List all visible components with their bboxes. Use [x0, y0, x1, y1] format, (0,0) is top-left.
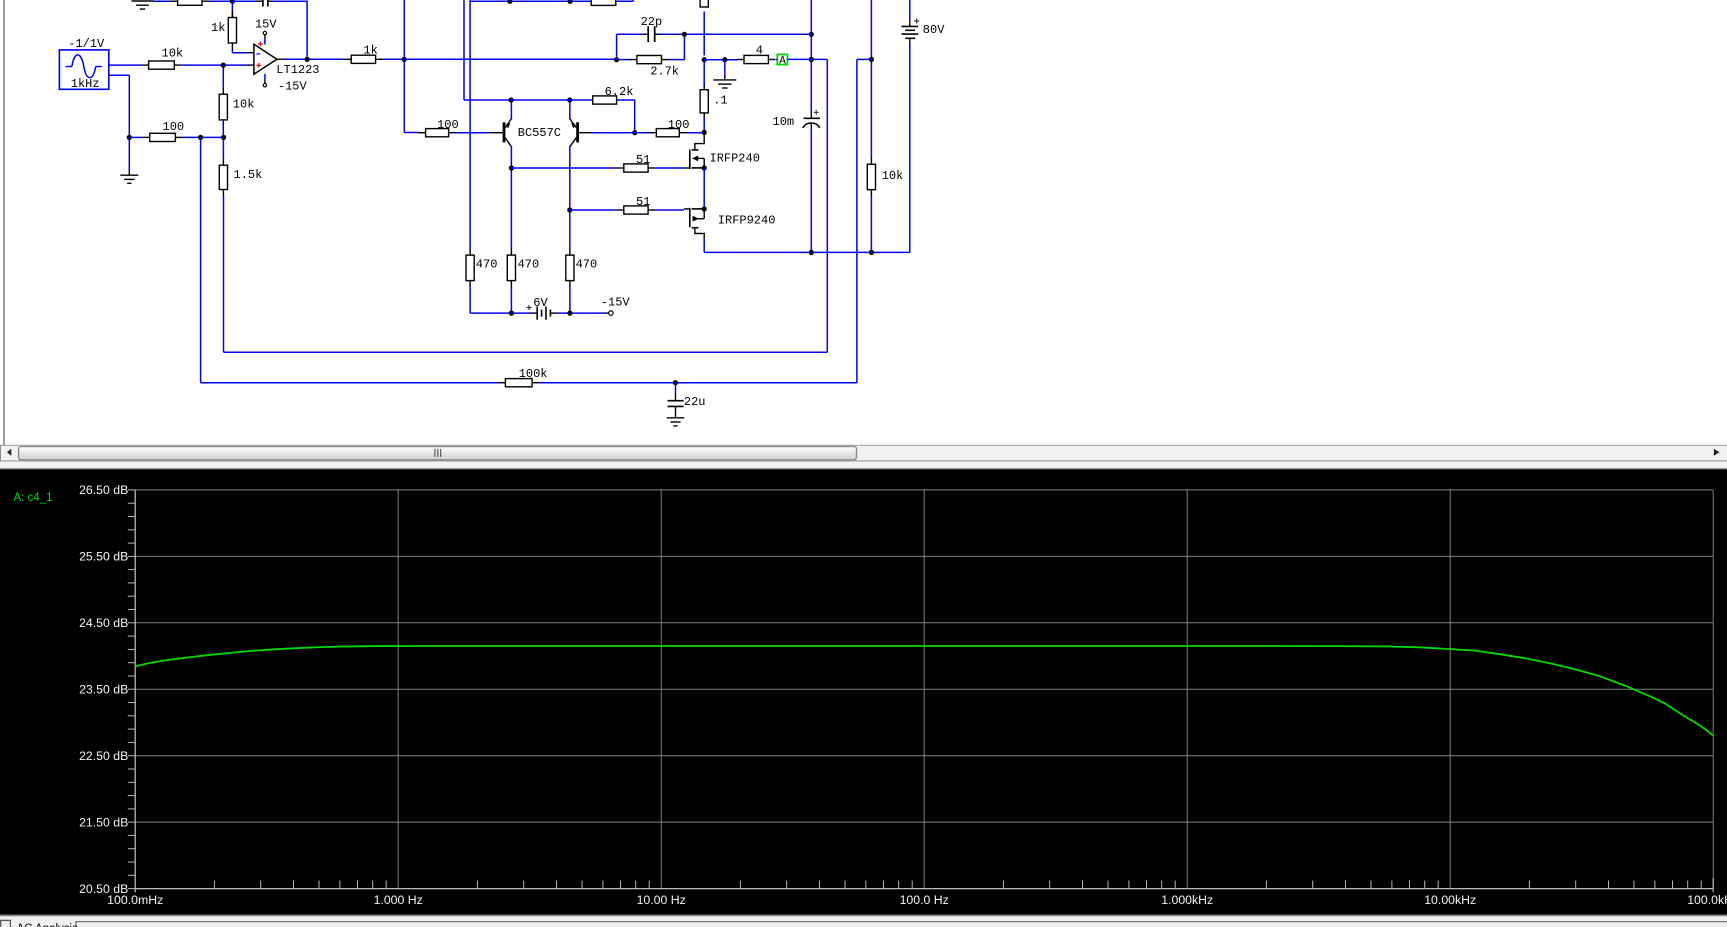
- junction .1 top node: [702, 57, 707, 62]
- resistor R 100 (base right): [649, 118, 690, 137]
- transistor Q1 BC557C (left): [489, 119, 511, 147]
- junction R470b: [509, 311, 514, 316]
- plot axes: [134, 490, 136, 889]
- svg-text:BC557C: BC557C: [518, 126, 561, 140]
- wire source- out: [109, 74, 130, 76]
- ground (node row): [713, 75, 736, 88]
- resistor R 1.5k: [219, 158, 262, 196]
- resistor R 10k (input): [141, 47, 183, 70]
- bottom tab bar: [0, 915, 1727, 927]
- junction M1 source: [702, 165, 707, 170]
- svg-text:22u: 22u: [684, 395, 706, 409]
- wire 22p left down: [616, 34, 618, 59]
- svg-text:470: 470: [518, 258, 540, 272]
- source V1 -1/1V 1kHz sine: [59, 50, 108, 89]
- svg-text:6V: 6V: [533, 296, 548, 310]
- svg-text:-15V: -15V: [601, 295, 631, 309]
- capacitor 22p: [643, 26, 660, 42]
- wire outer loop right: [856, 59, 858, 382]
- junction rail/10m: [809, 250, 814, 255]
- wire 10m to rail: [810, 129, 812, 253]
- svg-text:10k: 10k: [233, 97, 255, 111]
- wire down to op-amp output: [306, 1, 308, 60]
- junction R470c: [567, 311, 572, 316]
- resistor R 51 (lower): [616, 195, 655, 214]
- svg-text:100: 100: [668, 118, 690, 132]
- wire junction to cap: [232, 0, 255, 2]
- junction outer loop tap: [198, 135, 203, 140]
- wire to R51b: [570, 209, 617, 211]
- wire source- down to gnd node: [128, 75, 130, 137]
- svg-text:.1: .1: [713, 94, 727, 108]
- junction fb node left: [614, 57, 619, 62]
- junction Q2 collector / 51: [567, 207, 572, 212]
- junction output bus: [809, 57, 814, 62]
- wire node to R1.5k: [222, 137, 224, 158]
- resistor R 1k (op-amp fb): [211, 11, 237, 50]
- svg-text:AC Analysis: AC Analysis: [17, 923, 79, 927]
- wire source+ to R10k: [109, 64, 141, 66]
- plot pane background: [0, 469, 1727, 915]
- wire inner loop left: [223, 196, 225, 352]
- wire cap to corner: [273, 0, 308, 2]
- resistor R 1k (series out): [344, 43, 383, 63]
- wire R100 to drain node: [687, 132, 705, 134]
- junction 10k branch: [869, 57, 874, 62]
- wire M2 drain down: [703, 239, 705, 253]
- wire plus node to R10k: [222, 65, 224, 88]
- resistor R 470 c: [566, 249, 597, 288]
- schematic pane left window border: [3, 0, 5, 445]
- svg-text:1k: 1k: [211, 21, 225, 35]
- wire outer loop left: [200, 137, 202, 382]
- resistor R (top right, cut): [700, 0, 708, 7]
- resistor R .1: [700, 85, 728, 117]
- svg-text:470: 470: [476, 258, 498, 272]
- resistor R 470 b: [507, 249, 539, 288]
- wire Q2 emitter up: [569, 100, 571, 120]
- svg-text:470: 470: [576, 258, 598, 272]
- wire bus to 10m: [810, 34, 812, 111]
- wire inner loop right: [826, 59, 828, 352]
- junction 22p right: [682, 32, 687, 37]
- MOSFET M1 IRFP240: [684, 134, 704, 169]
- resistor R 2.7k: [629, 56, 679, 79]
- op-amp -15V supply pin: [263, 74, 266, 87]
- MOSFET M2 IRFP9240: [684, 208, 704, 239]
- svg-text:A: A: [779, 56, 786, 68]
- wire 22p right down: [683, 34, 685, 59]
- svg-text:1k: 1k: [363, 43, 377, 57]
- wire R.1 to drain node: [703, 117, 705, 133]
- svg-text:100: 100: [163, 120, 185, 134]
- wire stub up C: [632, 0, 634, 1]
- probe A marker: [777, 54, 787, 67]
- ground (input): [120, 171, 138, 184]
- svg-text:23.50 dB: 23.50 dB: [79, 683, 128, 697]
- wire to emitter row: [464, 99, 511, 101]
- svg-text:1kHz: 1kHz: [71, 77, 100, 91]
- wire to ground: [128, 137, 130, 170]
- wire A to corner: [787, 58, 827, 60]
- junction rail/10k: [869, 250, 874, 255]
- wire Q1 collector down: [510, 146, 512, 249]
- wire battery row left: [470, 312, 530, 314]
- resistor R 100 (base left): [418, 118, 459, 137]
- svg-text:80V: 80V: [923, 23, 945, 37]
- x-axis minor ticks: [214, 881, 1701, 889]
- wire R470a down: [469, 287, 471, 313]
- junction 22u tap: [673, 380, 678, 385]
- svg-text:1.000kHz: 1.000kHz: [1161, 893, 1213, 907]
- wire node to R100: [635, 132, 649, 134]
- svg-text:15V: 15V: [255, 18, 277, 32]
- junction Q2 emitter: [567, 97, 572, 102]
- terminal -15V: [605, 311, 614, 315]
- wire R10k to node: [222, 120, 224, 137]
- svg-text:21.50 dB: 21.50 dB: [79, 815, 128, 829]
- ground (22u): [667, 415, 685, 426]
- junction ground stub: [722, 57, 727, 62]
- svg-text:10k: 10k: [882, 169, 904, 183]
- resistor R 100 (gnd ref): [142, 120, 184, 142]
- wire Q2 base to node: [592, 132, 635, 134]
- battery 6V: [527, 305, 557, 320]
- svg-text:51: 51: [636, 195, 650, 209]
- wire outer loop to R100k: [201, 382, 498, 384]
- wire jog left: [857, 58, 872, 60]
- wire top R down to node A region: [703, 12, 705, 56]
- wire 10k to rail: [870, 196, 872, 253]
- resistor R 100k: [498, 367, 548, 387]
- svg-text:IRFP240: IRFP240: [710, 152, 760, 166]
- junction M1 drain node: [702, 130, 707, 135]
- svg-text:25.50 dB: 25.50 dB: [79, 550, 128, 564]
- svg-text:24.50 dB: 24.50 dB: [79, 616, 128, 630]
- junction node B: [402, 57, 407, 62]
- wire op-amp out to R1k: [283, 58, 344, 60]
- junction Q1 emitter: [509, 97, 514, 102]
- wire stub up A: [509, 0, 511, 1]
- wire top row R to junction: [210, 0, 233, 2]
- plot vertical gridlines (decades): [135, 490, 1713, 889]
- junction top stub B: [568, 0, 573, 4]
- wire R1k to minus row: [231, 49, 233, 53]
- wire M1 source to M2 source: [703, 168, 705, 209]
- wire Q2 collector down: [569, 146, 571, 249]
- plot horizontal gridlines: [135, 490, 1713, 889]
- wire R2.7k right lead: [669, 59, 685, 61]
- wire battery row right: [557, 312, 605, 314]
- wire to op-amp minus input: [232, 52, 248, 54]
- wire 10k branch from top: [870, 0, 872, 158]
- svg-text:LT1223: LT1223: [276, 63, 319, 77]
- wire R100 to Q1 base: [456, 132, 489, 134]
- transistor Q2 BC557C (right): [570, 119, 592, 147]
- wire top row to R: [154, 0, 171, 2]
- wire stub to ground: [724, 60, 726, 76]
- svg-text:100.0mHz: 100.0mHz: [107, 893, 163, 907]
- svg-text:-15V: -15V: [278, 80, 308, 94]
- wire 6.2k to corner: [617, 99, 635, 101]
- wire long vertical to R470a: [469, 0, 471, 249]
- svg-text:A: c4_1: A: c4_1: [14, 492, 53, 504]
- capacitor 22u + ground: [668, 383, 684, 416]
- svg-text:22.50 dB: 22.50 dB: [79, 749, 128, 763]
- svg-text:26.50 dB: 26.50 dB: [79, 483, 128, 497]
- axis end ticks: [134, 889, 136, 893]
- svg-text:100: 100: [437, 118, 459, 132]
- wire gnd node to R100: [129, 136, 142, 138]
- junction bus top: [809, 32, 814, 37]
- svg-text:100.0kHz: 100.0kHz: [1687, 893, 1727, 907]
- svg-text:4: 4: [756, 43, 763, 57]
- resistor R 4: [737, 43, 775, 63]
- wire R4 to A: [776, 59, 778, 61]
- svg-text:2.7k: 2.7k: [650, 65, 679, 79]
- wire 22p row to output bus: [660, 33, 811, 35]
- wire down to base node: [634, 100, 636, 133]
- svg-text:1.5k: 1.5k: [234, 168, 263, 182]
- wire bottom rail: [704, 251, 910, 253]
- svg-text:51: 51: [636, 153, 650, 167]
- wire tail bias vertical: [463, 0, 465, 100]
- trace A (green curve): [135, 646, 1713, 736]
- resistor R (top, cut): [170, 0, 209, 5]
- wire to 22p: [617, 33, 643, 35]
- wire bus from top: [810, 0, 812, 34]
- wire Q1 emitter up: [510, 100, 512, 120]
- wire inner loop bottom: [224, 351, 828, 353]
- svg-text:10.00 Hz: 10.00 Hz: [637, 893, 686, 907]
- wire node to R.1: [703, 60, 705, 88]
- svg-text:6.2k: 6.2k: [605, 85, 634, 99]
- junction top/1k: [230, 0, 235, 4]
- svg-text:IRFP9240: IRFP9240: [718, 213, 776, 227]
- wire R100k to right corner: [540, 382, 857, 384]
- op-amp +15V supply pin: [263, 31, 266, 44]
- wire stub up B: [569, 0, 571, 1]
- resistor R (top mid, cut): [591, 0, 616, 5]
- svg-text:10k: 10k: [162, 47, 184, 61]
- wire R10k to op-amp plus input: [182, 64, 249, 66]
- wire R51a to M1 gate: [656, 167, 684, 169]
- wire R470b down: [510, 287, 512, 313]
- wire top row piece2: [470, 0, 591, 2]
- svg-text:100k: 100k: [519, 367, 548, 381]
- horizontal scrollbar: [0, 445, 1727, 461]
- svg-text:-1/1V: -1/1V: [68, 37, 105, 51]
- wire junction to R1k: [231, 1, 233, 17]
- junction gnd node: [127, 135, 132, 140]
- junction Q1 collector / 51: [509, 165, 514, 170]
- separator strip: [0, 462, 1727, 469]
- svg-text:100.0 Hz: 100.0 Hz: [900, 893, 949, 907]
- wire node B vertical: [403, 0, 405, 133]
- resistor R 10k (load): [867, 158, 903, 197]
- resistor R 51 (upper): [616, 153, 655, 172]
- resistor R 470 a: [466, 249, 497, 288]
- wire R470c down: [569, 287, 571, 313]
- svg-text:1.000 Hz: 1.000 Hz: [374, 893, 423, 907]
- svg-text:22p: 22p: [641, 15, 663, 29]
- wire corner to R100: [404, 132, 418, 134]
- junction output/fb: [305, 57, 310, 62]
- wire node to R4: [704, 59, 737, 61]
- junction M2 source: [702, 206, 707, 211]
- junction Q2 base node: [632, 130, 637, 135]
- op-amp U1 LT1223: [248, 42, 283, 75]
- wire top piece2 right: [616, 0, 633, 2]
- resistor R 10k (fb divider): [219, 88, 254, 127]
- junction plus-input node: [221, 63, 226, 68]
- capacitor 10m (polarized): [803, 110, 820, 129]
- svg-text:10m: 10m: [773, 115, 795, 129]
- wire to R51a: [511, 167, 616, 169]
- battery 80V: [902, 0, 920, 44]
- wire R51b to M2 gate: [656, 209, 684, 211]
- y-axis minor ticks: [128, 490, 135, 889]
- resistor R 6.2k: [593, 85, 634, 104]
- wire emitter row: [511, 99, 593, 101]
- wire R1k to 2.7k node: [383, 58, 616, 60]
- junction top stub A: [507, 0, 512, 4]
- capacitor (top, cut): [255, 0, 273, 7]
- ground (top-left, cut): [132, 1, 154, 9]
- svg-text:10.00kHz: 10.00kHz: [1424, 893, 1476, 907]
- wire R100 to divider node: [183, 136, 224, 138]
- wire node to R2.7k: [617, 59, 630, 61]
- wire battery down: [909, 44, 911, 252]
- junction divider node: [221, 135, 226, 140]
